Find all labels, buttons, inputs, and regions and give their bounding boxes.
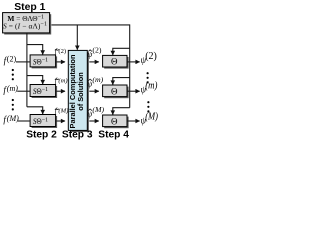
svg-text:Step 2: Step 2 (26, 129, 57, 140)
wire right feed vertical (129, 24, 131, 107)
dots right lower (147, 101, 149, 112)
wire parallel to Theta rowM (89, 120, 99, 122)
svg-text:SΘ: SΘ (33, 116, 42, 126)
svg-text:Θ: Θ (111, 86, 118, 96)
wire S-block row2 to parallel block (56, 61, 65, 63)
block parallel computation (68, 50, 87, 130)
svg-text:(m): (m) (7, 84, 18, 93)
svg-text:(M): (M) (92, 105, 104, 114)
wire junction arrow into parallel block top (76, 25, 78, 50)
box Theta row 2 (103, 55, 127, 67)
box U1 (Step-1 matrix definitions) (3, 13, 50, 33)
svg-text:of Solution: of Solution (76, 72, 85, 111)
wire left branch row m (27, 76, 43, 84)
svg-text:Step 3: Step 3 (62, 129, 93, 140)
box SΘ-1 row M (30, 115, 55, 127)
box Theta row m (103, 85, 127, 97)
wire parallel to Theta row2 (89, 61, 99, 63)
wire f2 into S-block (16, 61, 30, 63)
dots left lower (12, 99, 14, 111)
block parallel computation shadow (70, 52, 89, 132)
wire left feed vertical (26, 33, 28, 106)
svg-text:Step 1: Step 1 (14, 2, 45, 13)
wire top horizontal from U1 to right feed (51, 24, 129, 26)
wire Theta rowm out (128, 90, 140, 92)
wire S-block rowM to parallel block (56, 120, 65, 122)
box U1 (Step-1 matrix definitions) shadow (4, 14, 51, 34)
svg-text:(M): (M) (58, 107, 68, 114)
svg-text:Step 4: Step 4 (98, 129, 129, 140)
label Parallel Computation of Solution (rotated) (68, 54, 85, 128)
dots left upper (12, 69, 14, 80)
wire Theta rowM out (128, 120, 140, 122)
wire left branch row 2 (27, 45, 43, 55)
svg-text:Θ: Θ (111, 57, 118, 67)
box Theta row M (103, 115, 127, 127)
svg-text:(m): (m) (92, 75, 103, 84)
wire parallel to Theta rowm (89, 90, 99, 92)
box SΘ-1 row 2 shadow (32, 56, 57, 68)
svg-text:(2): (2) (92, 46, 101, 55)
svg-text:(2): (2) (7, 55, 17, 64)
svg-text:−1: −1 (42, 58, 48, 64)
box Theta row 2 shadow (104, 57, 128, 69)
dots right upper (147, 72, 149, 83)
wire fM into S-block (18, 120, 30, 122)
svg-text:(M): (M) (145, 111, 158, 122)
box SΘ-1 row m (30, 85, 55, 97)
wire left branch row M (27, 107, 43, 114)
box Theta row M shadow (104, 117, 128, 129)
wire right branch row M (113, 108, 130, 115)
wire S-block rowm to parallel block (56, 90, 65, 92)
wire right branch row m (113, 78, 130, 85)
svg-text:(m): (m) (58, 77, 67, 84)
svg-text:(2): (2) (145, 51, 157, 62)
box SΘ-1 row M shadow (32, 116, 57, 128)
svg-text:Θ: Θ (111, 116, 118, 126)
wire right branch row 2 (113, 48, 130, 55)
svg-text:(2): (2) (58, 48, 66, 55)
wire fm into S-block (17, 90, 30, 92)
svg-text:SΘ: SΘ (33, 86, 42, 96)
svg-text:SΘ: SΘ (33, 57, 42, 67)
box Theta row m shadow (104, 87, 128, 99)
svg-text:−1: −1 (42, 87, 48, 93)
svg-text:−1: −1 (42, 118, 48, 124)
wire Theta row2 out (128, 61, 140, 63)
svg-text:(M): (M) (7, 114, 19, 123)
box SΘ-1 row 2 (30, 55, 55, 67)
box SΘ-1 row m shadow (32, 86, 57, 98)
